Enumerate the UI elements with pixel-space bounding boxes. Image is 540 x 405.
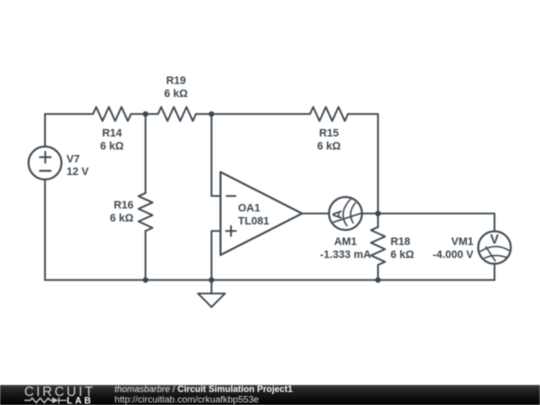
node ground junction [209,277,215,283]
ground [198,294,225,308]
voltmeter VM1 [478,231,511,264]
resistor R14 [93,107,131,121]
svg-text:V7: V7 [67,154,80,166]
wire V7 bottom [44,180,46,281]
op-amp minus sign [227,195,236,197]
svg-text:OA1: OA1 [238,203,260,215]
svg-text:R18: R18 [391,236,411,248]
wire V7 top [44,114,46,147]
svg-text:12 V: 12 V [67,166,90,178]
svg-text:http://circuitlab.com/crkuafkb: http://circuitlab.com/crkuafkbp553e [115,395,259,405]
svg-text:6 kΩ: 6 kΩ [317,141,341,153]
svg-text:VM1: VM1 [451,236,473,248]
node R18 bottom [375,277,381,283]
resistor R19 [158,107,196,121]
footer bar [0,385,540,405]
wire R14 to R19 [131,113,158,115]
wire R16 bottom [145,231,147,280]
svg-text:R16: R16 [114,200,134,212]
wire junction to voltmeter [378,214,495,232]
svg-text:LAB: LAB [67,396,94,405]
wire R15 to right corner and down [348,114,378,214]
node R14/R19/R16 [143,111,149,117]
svg-text:6 kΩ: 6 kΩ [391,249,415,261]
wire ammeter to junction [362,213,378,215]
resistor R18 [371,227,385,265]
wire R18 bottom [377,265,379,280]
wire inverting input [212,114,221,196]
V7 minus mark [40,170,51,172]
svg-text:-1.333 mA: -1.333 mA [320,249,371,261]
svg-text:thomasbarbre / Circuit Simulat: thomasbarbre / Circuit Simulation Projec… [115,384,293,394]
resistor R16 [139,193,153,231]
svg-text:AM1: AM1 [334,236,357,248]
svg-text:R14: R14 [102,128,122,140]
node R19/R15/op-amp minus [209,111,215,117]
logo resistor-diode glyph [24,397,66,403]
wire bottom rail [45,279,495,281]
junction dots [143,111,381,283]
node R16 bottom [143,277,149,283]
voltage source V7 [29,147,62,180]
wire voltmeter bottom [494,264,496,280]
svg-text:A: A [330,209,345,219]
svg-text:R19: R19 [166,75,186,87]
svg-text:V: V [490,232,499,247]
wire top-left horizontal [45,113,93,115]
wire R16 top [145,114,147,193]
wire op-amp output [302,213,329,215]
wire ground stub [211,280,213,294]
resistor R15 [310,107,348,121]
op-amp plus sign [226,226,236,236]
node ammeter/R18/VM [375,211,381,217]
op-amp OA1 triangle [221,172,303,255]
wire R19 to R15 [196,113,310,115]
svg-text:-4.000 V: -4.000 V [433,249,475,261]
svg-text:6 kΩ: 6 kΩ [110,213,134,225]
svg-text:6 kΩ: 6 kΩ [164,88,188,100]
wire non-inverting input to ground rail [212,231,221,280]
svg-text:TL081: TL081 [238,216,269,228]
svg-text:6 kΩ: 6 kΩ [100,141,124,153]
svg-text:R15: R15 [319,128,339,140]
V7 plus mark [40,152,51,163]
wire R18 top [377,214,379,228]
ammeter AM1 [329,197,362,230]
